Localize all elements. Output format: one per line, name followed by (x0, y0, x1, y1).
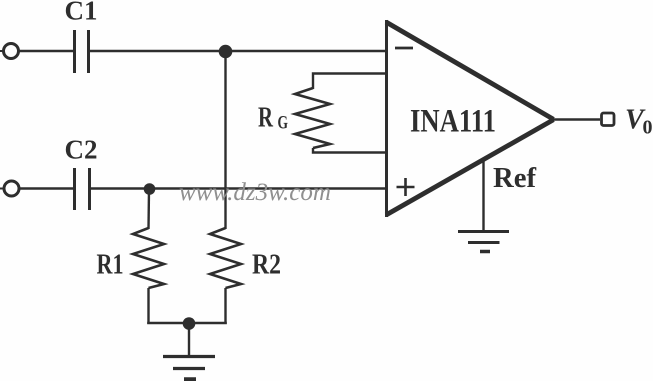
output terminal VO (602, 113, 615, 126)
wire R2 to bottom node (224, 288, 226, 324)
svg-text:0: 0 (643, 117, 653, 139)
wire R1 to bottom node (147, 288, 149, 324)
wire U1 output (553, 118, 600, 120)
wire RG top to op-amp (313, 74, 386, 90)
wire bottom rail R1-R2 (147, 322, 227, 324)
wire C2 to op-amp plus input (91, 187, 386, 189)
svg-text:C1: C1 (65, 0, 98, 26)
input terminal IN1 (0, 50, 4, 52)
wire Ref pin (482, 159, 484, 230)
resistor RG (295, 88, 330, 148)
pin minus of U1 (395, 47, 413, 50)
wire IN2 to C2 (19, 187, 73, 189)
svg-text:C2: C2 (65, 135, 98, 165)
svg-text:R: R (258, 103, 274, 134)
capacitor C2 (75, 168, 90, 210)
svg-text:R1: R1 (97, 249, 124, 281)
ground GND2 (Ref) (458, 232, 509, 252)
wire RG bottom to op-amp (313, 148, 386, 153)
node B (junction C2 line / R1 branch) (144, 183, 156, 195)
input terminal IN2 (0, 188, 4, 190)
wire C1 to op-amp minus input (90, 50, 386, 52)
svg-text:www.dz3w.com: www.dz3w.com (179, 179, 331, 206)
wire node A down to R2 (224, 52, 226, 230)
capacitor C1 (75, 30, 89, 73)
svg-text:Ref: Ref (493, 162, 536, 194)
wire node C to ground (188, 323, 190, 356)
svg-text:INA111: INA111 (410, 104, 496, 140)
svg-text:G: G (278, 113, 289, 134)
node C (junction bottom rail / ground) (183, 317, 196, 330)
op-amp U1 INA111 triangle (387, 22, 554, 215)
resistor R1 (133, 228, 164, 288)
resistor R2 (210, 228, 241, 288)
svg-text:R2: R2 (252, 249, 281, 281)
pin plus of U1 (397, 178, 415, 196)
ground GND1 (163, 357, 215, 380)
wire node B down to R1 (147, 189, 150, 229)
node A (junction C1 line / R2 branch) (219, 45, 233, 59)
wire IN1 to C1 (19, 50, 73, 52)
